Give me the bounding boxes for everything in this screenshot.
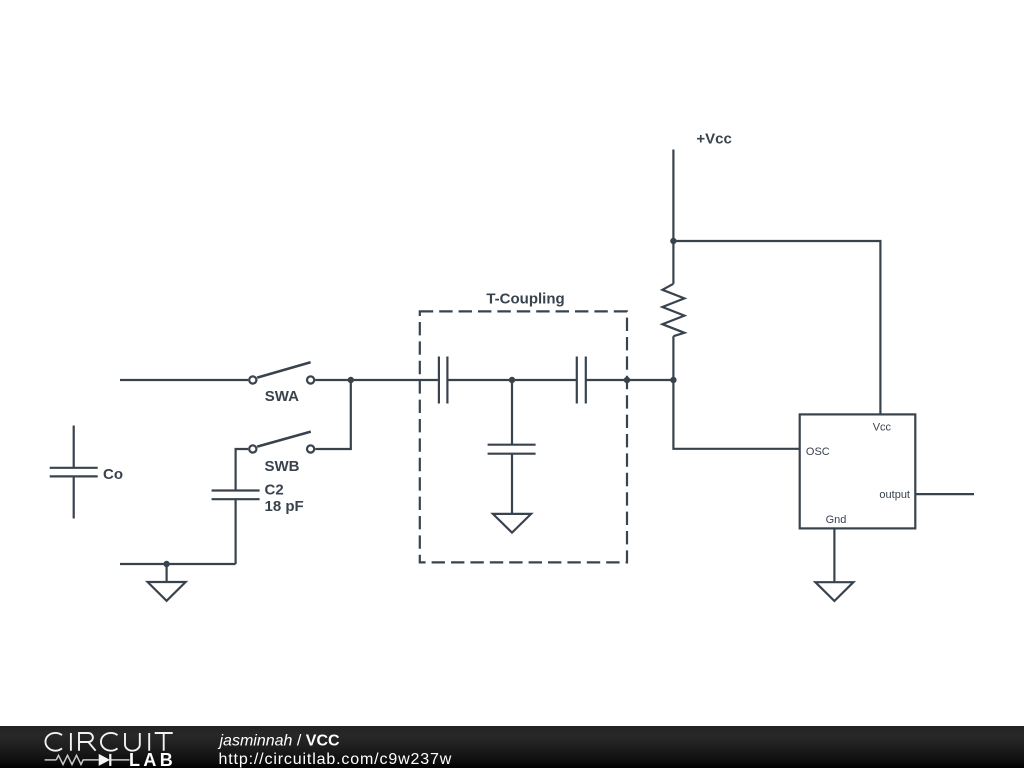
switch SWA right contact — [307, 376, 314, 383]
wire C2 to bottom rail — [235, 499, 237, 564]
resistor R1 zigzag — [662, 284, 684, 336]
oscillator IC box — [800, 414, 916, 528]
logo resistor zigzag — [56, 755, 98, 764]
shunt capacitor top lead — [511, 380, 513, 445]
wire Gnd pin — [833, 528, 835, 582]
node junction Vcc rail — [670, 238, 676, 244]
capacitor C2 plates — [212, 491, 260, 500]
resistor R1 bottom lead — [672, 336, 674, 380]
wire Vcc rail to IC Vcc pin — [673, 241, 880, 414]
node junction box edge — [624, 377, 630, 383]
wire node branch down to SWB — [315, 380, 351, 449]
footer bar — [0, 726, 1024, 768]
capacitor Co bottom lead — [73, 476, 75, 518]
wire bottom rail — [120, 563, 236, 565]
svg-text:Co: Co — [103, 466, 123, 483]
svg-text:OSC: OSC — [806, 446, 830, 458]
capacitor Co top lead — [73, 426, 75, 468]
node junction bottom rail — [163, 561, 169, 567]
logo letter C — [45, 733, 62, 751]
switch SWA left contact — [249, 376, 256, 383]
wire input left to SWA — [120, 379, 248, 381]
shunt capacitor bottom lead — [511, 454, 513, 514]
resistor R1 top lead — [672, 241, 674, 284]
svg-text:T-Coupling: T-Coupling — [486, 291, 564, 308]
node junction shunt cap — [509, 377, 515, 383]
svg-text:SWA: SWA — [265, 388, 299, 405]
svg-text:Vcc: Vcc — [873, 422, 892, 434]
shunt capacitor plates — [488, 445, 536, 454]
logo letter I — [148, 733, 150, 751]
wire SWA to C4 left plate — [315, 379, 438, 381]
capacitor series right plates — [577, 357, 586, 404]
svg-text:jasminnah / VCC: jasminnah / VCC — [218, 733, 341, 750]
logo letter R — [79, 733, 96, 751]
logo letter I — [70, 733, 72, 751]
logo diode lead right — [110, 759, 129, 761]
node junction resistor bottom — [670, 377, 676, 383]
T-Coupling dashed box — [420, 311, 627, 562]
wire resistor node to OSC pin — [673, 380, 799, 449]
logo diode cathode bar — [109, 754, 111, 766]
logo resistor lead left — [45, 759, 57, 761]
wire output pin — [915, 493, 974, 495]
ground symbol IC — [815, 582, 853, 601]
svg-text:Gnd: Gnd — [826, 514, 847, 526]
svg-text:18 pF: 18 pF — [265, 498, 304, 515]
switch SWB lever — [257, 432, 311, 447]
logo letter T — [155, 733, 173, 751]
wire between series capacitors — [447, 379, 576, 381]
logo diode triangle — [99, 754, 110, 766]
wire SWB left to C2 — [236, 449, 249, 491]
ground symbol T-coupling — [493, 514, 531, 533]
wire series cap to resistor node — [586, 379, 674, 381]
node junction SWA/SWB — [348, 377, 354, 383]
svg-text:output: output — [879, 489, 910, 501]
capacitor series left plates — [439, 357, 448, 404]
switch SWB left contact — [249, 445, 256, 452]
capacitor Co plates — [50, 468, 98, 477]
switch SWB right contact — [307, 445, 314, 452]
logo letter C — [101, 733, 118, 751]
svg-text:http://circuitlab.com/c9w237w: http://circuitlab.com/c9w237w — [219, 751, 453, 768]
+Vcc supply wire — [672, 150, 674, 242]
svg-text:LAB: LAB — [129, 750, 176, 768]
svg-text:SWB: SWB — [265, 458, 300, 475]
svg-text:+Vcc: +Vcc — [696, 130, 731, 147]
svg-text:C2: C2 — [265, 481, 284, 498]
ground stub left — [166, 564, 168, 582]
logo letter U — [125, 733, 140, 751]
switch SWA lever — [257, 362, 310, 377]
ground symbol left — [148, 582, 186, 601]
